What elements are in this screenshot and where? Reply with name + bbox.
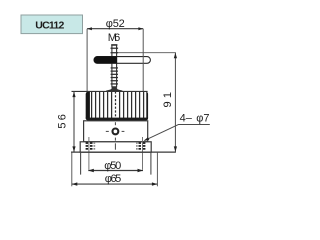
svg-text:φ52: φ52: [106, 18, 125, 30]
svg-text:4–: 4–: [180, 112, 193, 124]
svg-text:φ7: φ7: [196, 112, 209, 124]
svg-text:φ65: φ65: [105, 173, 122, 185]
svg-text:UC112: UC112: [35, 20, 64, 32]
svg-text:φ50: φ50: [104, 160, 121, 172]
svg-text:M6: M6: [108, 32, 121, 44]
